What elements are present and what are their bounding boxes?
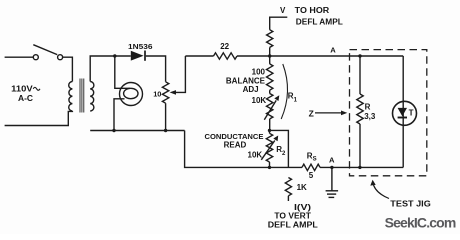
wire: pot 10 bottom to rail (165, 103, 167, 130)
wire: lamp bottom lead to bottom rail (114, 99, 125, 131)
svg-text:T: T (409, 109, 414, 118)
wire: R3.3 bottom to rail (359, 124, 361, 167)
label R1 (288, 92, 298, 104)
label 110V A-C with AC sine squiggle (11, 85, 40, 104)
wire+terminal: V output stub (270, 17, 288, 30)
switch S1 (open SPST) (33, 45, 62, 60)
junction: pot 10 bottom on rail (164, 129, 167, 132)
label RS (307, 151, 317, 162)
wire: node A rail down to R3.3 (359, 56, 361, 94)
svg-text:S: S (313, 157, 317, 163)
svg-text:110V: 110V (11, 85, 33, 94)
junction: R3.3 bottom on rail (358, 166, 361, 169)
junction: node A (grounded) (330, 166, 333, 169)
svg-text:BALANCE: BALANCE (226, 76, 266, 85)
svg-text:READ: READ (224, 141, 247, 150)
svg-text:100: 100 (252, 67, 266, 76)
svg-text:TO VERT: TO VERT (274, 211, 311, 220)
svg-text:3,3: 3,3 (364, 112, 376, 121)
wire: resistor to node A rail (269, 47, 271, 56)
wire: jig right branch (through tunnel diode) (402, 56, 404, 167)
wire: node A down to R1 upper section (269, 56, 271, 64)
svg-text:CONDUCTANCE: CONDUCTANCE (205, 132, 264, 141)
svg-text:TEST JIG: TEST JIG (390, 199, 431, 208)
svg-text:1: 1 (294, 97, 298, 103)
wire: secondary top to diode anode (node at lamp tap) (90, 56, 131, 82)
junction: V/R1 node on top rail (268, 54, 271, 57)
R1 upper section 100 BALANCE ADJ (267, 64, 273, 90)
wire: R2 bottom to rail (269, 162, 271, 167)
transformer T1 core (3 lines) (80, 79, 84, 113)
svg-text:DEFL AMPL: DEFL AMPL (296, 17, 343, 26)
test jig dashed enclosure (350, 50, 427, 176)
junction: lamp bottom on rail (112, 129, 115, 132)
wire: RS to jig bottom corner (320, 166, 403, 168)
wire: diode cathode to pot 10 top (146, 56, 166, 82)
wire: wiper node right and down to lower rail (270, 130, 289, 167)
svg-text:2: 2 (282, 151, 286, 157)
svg-text:A: A (330, 45, 336, 54)
svg-text:DEFL AMPL: DEFL AMPL (268, 220, 318, 229)
wire: wiper node to R2 top (269, 130, 271, 133)
svg-text:5: 5 (309, 171, 314, 180)
wire: AC hot lead from left edge to switch (5, 56, 33, 58)
wire: rail step down (185, 131, 302, 168)
wire: lamp branch down from top rail (115, 56, 130, 88)
svg-text:ADJ: ADJ (243, 85, 259, 94)
pot 10 wiper arrow to top rail (170, 56, 186, 95)
svg-text:22: 22 (220, 42, 229, 51)
R1 wiper arrow (264, 95, 279, 120)
label R2 (276, 145, 286, 157)
resistor RS 5 (302, 164, 320, 170)
transformer T1 primary winding (69, 82, 73, 112)
pilot lamp envelope (circle) (120, 83, 143, 106)
svg-text:A: A (329, 155, 335, 164)
pilot lamp filament loop (124, 88, 138, 98)
wire: switch to transformer primary top (63, 57, 73, 81)
svg-text:10K: 10K (252, 96, 267, 105)
svg-text:10K: 10K (248, 151, 263, 160)
svg-text:V: V (280, 6, 286, 15)
resistor (V divider upper) (267, 30, 273, 48)
wire: resistor 22 to test jig corner (node A rail) (237, 55, 403, 57)
svg-text:1N536: 1N536 (128, 42, 153, 51)
wire: 1K bottom lead I(V) terminal (287, 196, 289, 201)
junction: R1/R2 wiper node (268, 129, 271, 132)
tunnel diode T envelope (393, 101, 417, 125)
svg-text:Z: Z (309, 109, 314, 119)
svg-text:10: 10 (153, 89, 161, 98)
resistor 1K (285, 178, 291, 196)
R2 wiper arrow (261, 136, 278, 160)
svg-text:SeekIC.com: SeekIC.com (385, 215, 456, 231)
svg-text:1K: 1K (297, 183, 307, 192)
resistor R 3.3 (357, 94, 363, 124)
ground symbol (326, 167, 339, 197)
test jig callout arrow (370, 180, 389, 199)
diode 1N536 (arrow + bar) (131, 51, 145, 61)
transformer T1 secondary winding (90, 82, 94, 112)
junction: R2 bottom on rail (268, 166, 271, 169)
svg-text:R: R (365, 103, 371, 112)
rheostat 10 (resistive element) (162, 82, 168, 103)
wire: primary bottom return to left edge (5, 111, 73, 126)
tunnel diode arrow+bar (398, 108, 407, 118)
R1 gang arc (281, 64, 287, 119)
resistor 22 (214, 53, 238, 59)
Z arrow into test jig (315, 111, 347, 116)
junction: lamp branch on top rail (113, 54, 116, 57)
pot R2 CONDUCTANCE READ 10K (266, 133, 272, 162)
junction: R3.3 top on node A rail (358, 54, 361, 57)
wire: wiper junction to resistor 22 (185, 55, 213, 57)
svg-text:TO HOR: TO HOR (295, 6, 330, 15)
wire: secondary-side bottom rail (90, 130, 184, 132)
R1 lower section 10K (267, 94, 273, 119)
wire: R1 bottom to wiper junction (269, 119, 271, 130)
wire: between R1 sections (269, 90, 271, 93)
svg-text:A-C: A-C (18, 94, 33, 103)
